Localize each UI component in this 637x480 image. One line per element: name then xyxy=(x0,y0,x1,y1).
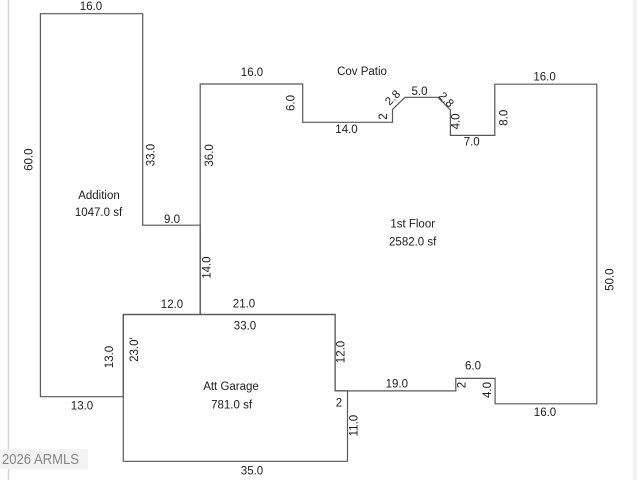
svg-text:33.0: 33.0 xyxy=(234,320,256,332)
watermark haze band xyxy=(0,449,88,469)
scan edge artifact left xyxy=(8,0,10,480)
svg-text:1st Floor: 1st Floor xyxy=(390,219,435,231)
Att Garage outline polygon xyxy=(123,315,347,462)
scan edge artifact right xyxy=(633,0,637,480)
svg-text:4.0: 4.0 xyxy=(482,382,494,398)
svg-text:6.0: 6.0 xyxy=(465,361,481,373)
svg-text:2.8: 2.8 xyxy=(436,90,456,110)
svg-text:2.8: 2.8 xyxy=(383,88,403,108)
svg-text:16.0: 16.0 xyxy=(80,1,102,13)
svg-text:4.0: 4.0 xyxy=(450,113,462,129)
svg-text:16.0: 16.0 xyxy=(533,72,555,84)
svg-text:12.0: 12.0 xyxy=(161,299,183,311)
svg-text:21.0: 21.0 xyxy=(233,299,255,311)
svg-text:16.0: 16.0 xyxy=(241,67,263,79)
svg-text:1047.0 sf: 1047.0 sf xyxy=(75,207,123,219)
svg-text:35.0: 35.0 xyxy=(241,466,263,478)
svg-text:Cov Patio: Cov Patio xyxy=(337,66,387,78)
svg-text:16.0: 16.0 xyxy=(534,407,556,419)
svg-text:19.0: 19.0 xyxy=(386,379,408,391)
svg-text:23.0': 23.0' xyxy=(129,337,141,362)
svg-text:9.0: 9.0 xyxy=(164,214,180,226)
svg-text:14.0: 14.0 xyxy=(335,124,357,136)
svg-text:Addition: Addition xyxy=(78,190,120,202)
1st Floor outline polygon with Cov Patio notch xyxy=(200,84,597,404)
svg-text:6.0: 6.0 xyxy=(286,95,298,111)
svg-text:781.0 sf: 781.0 sf xyxy=(211,400,253,412)
svg-text:2026 ARMLS: 2026 ARMLS xyxy=(2,452,79,468)
svg-text:33.0: 33.0 xyxy=(146,144,158,166)
svg-text:Att Garage: Att Garage xyxy=(203,381,259,393)
svg-text:2: 2 xyxy=(336,398,342,410)
svg-text:13.0: 13.0 xyxy=(104,346,116,368)
svg-text:5.0: 5.0 xyxy=(412,86,428,98)
svg-text:12.0: 12.0 xyxy=(336,341,348,363)
svg-text:2582.0 sf: 2582.0 sf xyxy=(389,237,437,249)
Addition outline polygon xyxy=(40,14,200,397)
svg-text:13.0: 13.0 xyxy=(71,401,93,413)
svg-text:2: 2 xyxy=(457,382,469,388)
svg-text:8.0: 8.0 xyxy=(498,110,510,126)
svg-text:7.0: 7.0 xyxy=(464,137,480,149)
svg-text:14.0: 14.0 xyxy=(201,256,213,278)
svg-text:50.0: 50.0 xyxy=(604,269,616,291)
svg-text:60.0: 60.0 xyxy=(24,149,36,171)
svg-text:11.0: 11.0 xyxy=(349,415,361,437)
svg-text:2: 2 xyxy=(378,113,390,119)
svg-text:36.0: 36.0 xyxy=(204,144,216,166)
